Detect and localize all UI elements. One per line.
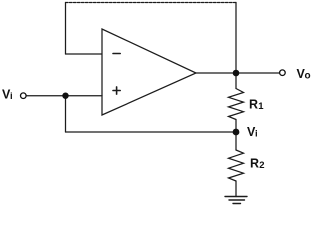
node Vi divider junction: [233, 129, 240, 136]
wire output: [196, 72, 280, 74]
wire R2 to ground: [235, 181, 237, 197]
op-amp U1: [102, 29, 196, 115]
node junction at + input: [62, 93, 68, 99]
node output junction: [233, 70, 240, 77]
wire node Vi to R2: [235, 132, 237, 150]
wire left feedback vertical: [65, 3, 67, 55]
wire input from terminal to + input: [26, 95, 102, 97]
terminal Vi input open circle: [21, 93, 27, 99]
wire inverting input stub: [66, 53, 103, 55]
wire R1 to node Vi: [235, 120, 237, 133]
wire output node to R1: [235, 73, 237, 89]
wire top feedback horizontal: [66, 2, 237, 4]
wire right feedback vertical: [235, 3, 237, 74]
ground: [225, 197, 247, 204]
terminal Vo output open circle: [280, 70, 286, 76]
non-inverting input plus mark: [113, 90, 120, 92]
wire bottom link to divider node: [66, 131, 237, 133]
inverting input minus mark: [113, 53, 120, 55]
resistor R1: [229, 89, 244, 120]
resistor R2: [229, 150, 244, 181]
wire junction down: [65, 96, 67, 132]
